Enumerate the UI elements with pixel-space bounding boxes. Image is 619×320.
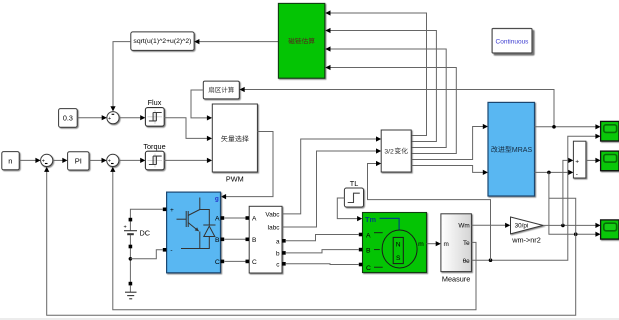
block powergui Continuous xyxy=(492,29,532,54)
wire gain output to scope3 input1 xyxy=(543,224,597,226)
port square ground xyxy=(129,282,133,286)
icon motor rotor circle with N S magnet xyxy=(382,230,417,268)
svg-text:+: + xyxy=(108,116,111,122)
wire meas c to motor C xyxy=(286,263,359,266)
svg-text:θe: θe xyxy=(463,258,471,265)
svg-text:MRAS: MRAS xyxy=(512,147,533,154)
block three-phase VI measurement xyxy=(249,206,282,273)
svg-text:TL: TL xyxy=(350,179,359,188)
svg-text:sqrt(u(1)^2+u(2)^2): sqrt(u(1)^2+u(2)^2) xyxy=(133,38,191,45)
block vector selection 矢量选择 (PWM) xyxy=(212,104,257,172)
port square meas B xyxy=(246,238,250,242)
junction estimated speed node xyxy=(574,232,578,236)
svg-text:b: b xyxy=(276,250,280,257)
svg-text:Measure: Measure xyxy=(442,274,470,283)
svg-text:Iabc: Iabc xyxy=(267,225,280,232)
wire inverter B to meas B xyxy=(224,238,245,240)
port square DC top xyxy=(129,218,133,222)
svg-text:A: A xyxy=(366,232,371,239)
wire 3/2 output6 to MRAS input2 xyxy=(411,166,484,173)
junction MRAS output1 branch xyxy=(552,125,556,129)
wire torque sum to Torque relay xyxy=(119,159,142,161)
wire sector calc to PWM input 1 xyxy=(191,90,209,118)
wire 3/2 output5 to MRAS input1 xyxy=(411,127,484,160)
wire MRAS output1 to scope1 input1 xyxy=(535,126,598,128)
port square inverter A xyxy=(221,216,225,220)
svg-text:wm->nr2: wm->nr2 xyxy=(511,235,541,244)
wire meas a to motor A xyxy=(286,235,359,241)
wire Vabc to 3/2 input 1 xyxy=(282,139,378,214)
wire MRAS speed branch down to scope3 input2 xyxy=(549,172,597,234)
wire battery bottom down to ground xyxy=(129,235,131,284)
wire speed sum to PI xyxy=(53,159,64,161)
port square meas A xyxy=(246,216,250,220)
svg-text:n: n xyxy=(8,156,12,165)
sum junction torque (Tref - Te) xyxy=(107,154,119,166)
block PI controller xyxy=(68,152,89,170)
wire sum to scope2 xyxy=(586,159,597,161)
icon motor shaft line xyxy=(380,218,400,230)
svg-text:30/pi: 30/pi xyxy=(515,223,529,230)
port square inverter C xyxy=(221,260,225,264)
sum junction speed (n - nr2) xyxy=(41,154,53,166)
wire TL to motor Tm xyxy=(337,198,359,219)
scope 1 (theta comparison) xyxy=(601,121,619,141)
wire MRAS output2 to error sum - xyxy=(535,171,571,173)
wire Flux relay to PWM input 2 xyxy=(164,118,209,139)
wire DC source to inverter + xyxy=(130,209,162,230)
block 0.3 (flux reference constant) xyxy=(59,109,78,128)
svg-text:m: m xyxy=(418,241,424,248)
gain 30/pi xyxy=(511,217,544,234)
scope 3 (speed comparison) xyxy=(601,220,619,239)
wire 3/2 output4 to flux estimator input4 xyxy=(329,68,457,154)
wire 0.3 to flux sum xyxy=(77,117,103,119)
wire MRAS speed to sector calc input xyxy=(243,90,554,127)
icon IGBT with antiparallel diode xyxy=(177,198,216,249)
svg-text:+: + xyxy=(42,159,45,165)
svg-text:-: - xyxy=(576,171,578,178)
svg-text:Flux: Flux xyxy=(148,98,162,107)
port square DC bottom xyxy=(129,245,133,249)
block Torque relay (hysteresis) xyxy=(145,151,164,170)
wire Wm to gain 30/pi xyxy=(471,224,507,226)
block TL load torque step xyxy=(344,188,363,207)
junction DC minus node xyxy=(129,257,133,261)
wire Te down to torque feedback xyxy=(113,170,476,309)
port square motor B xyxy=(359,248,363,252)
block IGBT inverter bridge U1 xyxy=(167,192,221,273)
svg-text:B: B xyxy=(366,248,371,255)
sum junction flux (0.3 - psi) xyxy=(107,112,119,124)
svg-text:Continuous: Continuous xyxy=(496,39,530,46)
svg-text:C: C xyxy=(252,259,257,266)
wire PI to torque sum xyxy=(89,159,103,161)
svg-text:DC: DC xyxy=(140,229,151,238)
svg-text:0.3: 0.3 xyxy=(63,113,73,122)
port square meas b xyxy=(282,251,286,255)
svg-text:N: N xyxy=(396,242,401,249)
block sector calculation 扇区计算 xyxy=(203,81,239,99)
wire flux estimator output to sqrt input xyxy=(198,41,279,43)
wire PWM output to inverter gate g xyxy=(224,132,273,197)
svg-text:C: C xyxy=(366,265,371,272)
wire: bottom window edge xyxy=(0,318,619,320)
wire motor m to Measure xyxy=(427,243,438,245)
icon motor stator leads xyxy=(374,233,383,268)
svg-text:-: - xyxy=(170,247,172,254)
wire inverter C to meas C xyxy=(224,260,245,262)
svg-text:+: + xyxy=(124,224,127,230)
block Flux relay (hysteresis) xyxy=(145,108,164,127)
svg-text:C: C xyxy=(215,259,220,266)
block 3/2 transformation 3/2变化 xyxy=(381,130,411,172)
port square motor A xyxy=(359,233,363,237)
port square inverter B xyxy=(221,238,225,242)
svg-text:PI: PI xyxy=(75,156,82,165)
svg-text:Tm: Tm xyxy=(365,215,377,224)
port square motor C xyxy=(359,263,363,267)
svg-text:+: + xyxy=(170,207,174,214)
wire inverter A to meas A xyxy=(224,217,245,219)
block PMSM motor xyxy=(363,213,427,273)
port square meas c xyxy=(282,262,286,266)
wire DC minus node to inverter - xyxy=(130,250,162,259)
block Measure subsystem xyxy=(441,214,472,272)
wire Torque relay to PWM input 3 xyxy=(164,159,209,161)
port square inverter + xyxy=(163,208,167,212)
svg-text:B: B xyxy=(215,237,220,244)
block improved MRAS 改进型MRAS xyxy=(488,102,535,196)
svg-text:Wm: Wm xyxy=(458,223,469,230)
wire gain branch up to error sum + xyxy=(563,160,570,225)
svg-text:m: m xyxy=(444,241,449,248)
port square meas C xyxy=(246,260,250,264)
sum block speed error xyxy=(573,141,586,178)
wire theta-e to scope1 input2 xyxy=(471,136,597,260)
junction MRAS output2 branch xyxy=(547,171,551,175)
wire n to speed sum xyxy=(19,159,37,161)
wire 3/2 output2 to flux estimator input2 xyxy=(329,31,437,142)
port square meas a xyxy=(282,239,286,243)
junction theta-e branch xyxy=(489,258,493,262)
wire estimated speed stub xyxy=(549,198,576,234)
wire 3/2 output1 to flux estimator input1 xyxy=(329,13,427,136)
svg-text:3/2: 3/2 xyxy=(384,148,394,155)
svg-text:Te: Te xyxy=(463,240,470,247)
svg-text:a: a xyxy=(276,238,280,245)
svg-text:B: B xyxy=(252,237,257,244)
junction gain output branch xyxy=(561,224,565,228)
svg-text:g: g xyxy=(215,195,219,202)
svg-text:A: A xyxy=(215,216,220,223)
wire estimated speed feedback to speed sum xyxy=(47,170,576,315)
scope 2 (speed error) xyxy=(601,151,619,171)
wire Iabc to 3/2 input 2 xyxy=(282,151,378,227)
block sqrt(u(1)^2+u(2)^2) flux magnitude Fcn xyxy=(131,32,194,51)
svg-text:Vabc: Vabc xyxy=(265,211,280,218)
svg-text:+: + xyxy=(108,159,111,165)
wire 3/2 output3 to flux estimator input3 xyxy=(329,49,447,148)
port square inverter - xyxy=(163,248,167,252)
svg-text:Torque: Torque xyxy=(143,142,165,151)
ground symbol xyxy=(129,285,131,292)
svg-text:A: A xyxy=(252,216,257,223)
wire flux sum to Flux relay xyxy=(119,117,142,119)
svg-text:S: S xyxy=(396,255,401,262)
svg-text:+: + xyxy=(575,159,579,166)
wire theta-e branch to 3/2 input 3 xyxy=(368,164,491,261)
wire meas b to motor B xyxy=(286,250,359,253)
block n (speed reference constant) xyxy=(2,152,19,170)
svg-text:PWM: PWM xyxy=(226,174,244,183)
wire sqrt output down to flux sum (minus input) xyxy=(113,42,131,108)
block flux estimator 磁链估算 xyxy=(278,3,324,78)
